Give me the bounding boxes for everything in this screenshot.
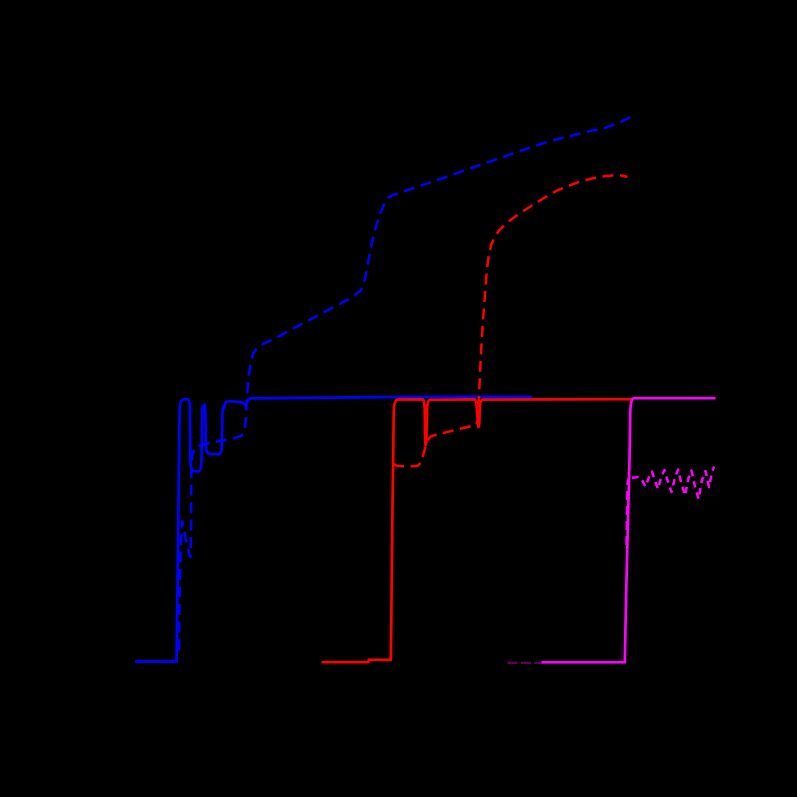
dark magenta dashed lead-in at bottom bbox=[508, 662, 542, 664]
red dashed curve rising to plateau bbox=[394, 175, 628, 466]
magenta solid charge curve bbox=[542, 398, 716, 662]
magenta dashed noisy squiggle bbox=[632, 467, 714, 500]
red solid charge curve with dips bbox=[322, 399, 634, 662]
blue dashed curve rising to top right bbox=[179, 118, 630, 651]
magenta dashed vertical overlap bbox=[626, 477, 632, 545]
blue solid charge curve with cycling loops bbox=[135, 397, 532, 662]
